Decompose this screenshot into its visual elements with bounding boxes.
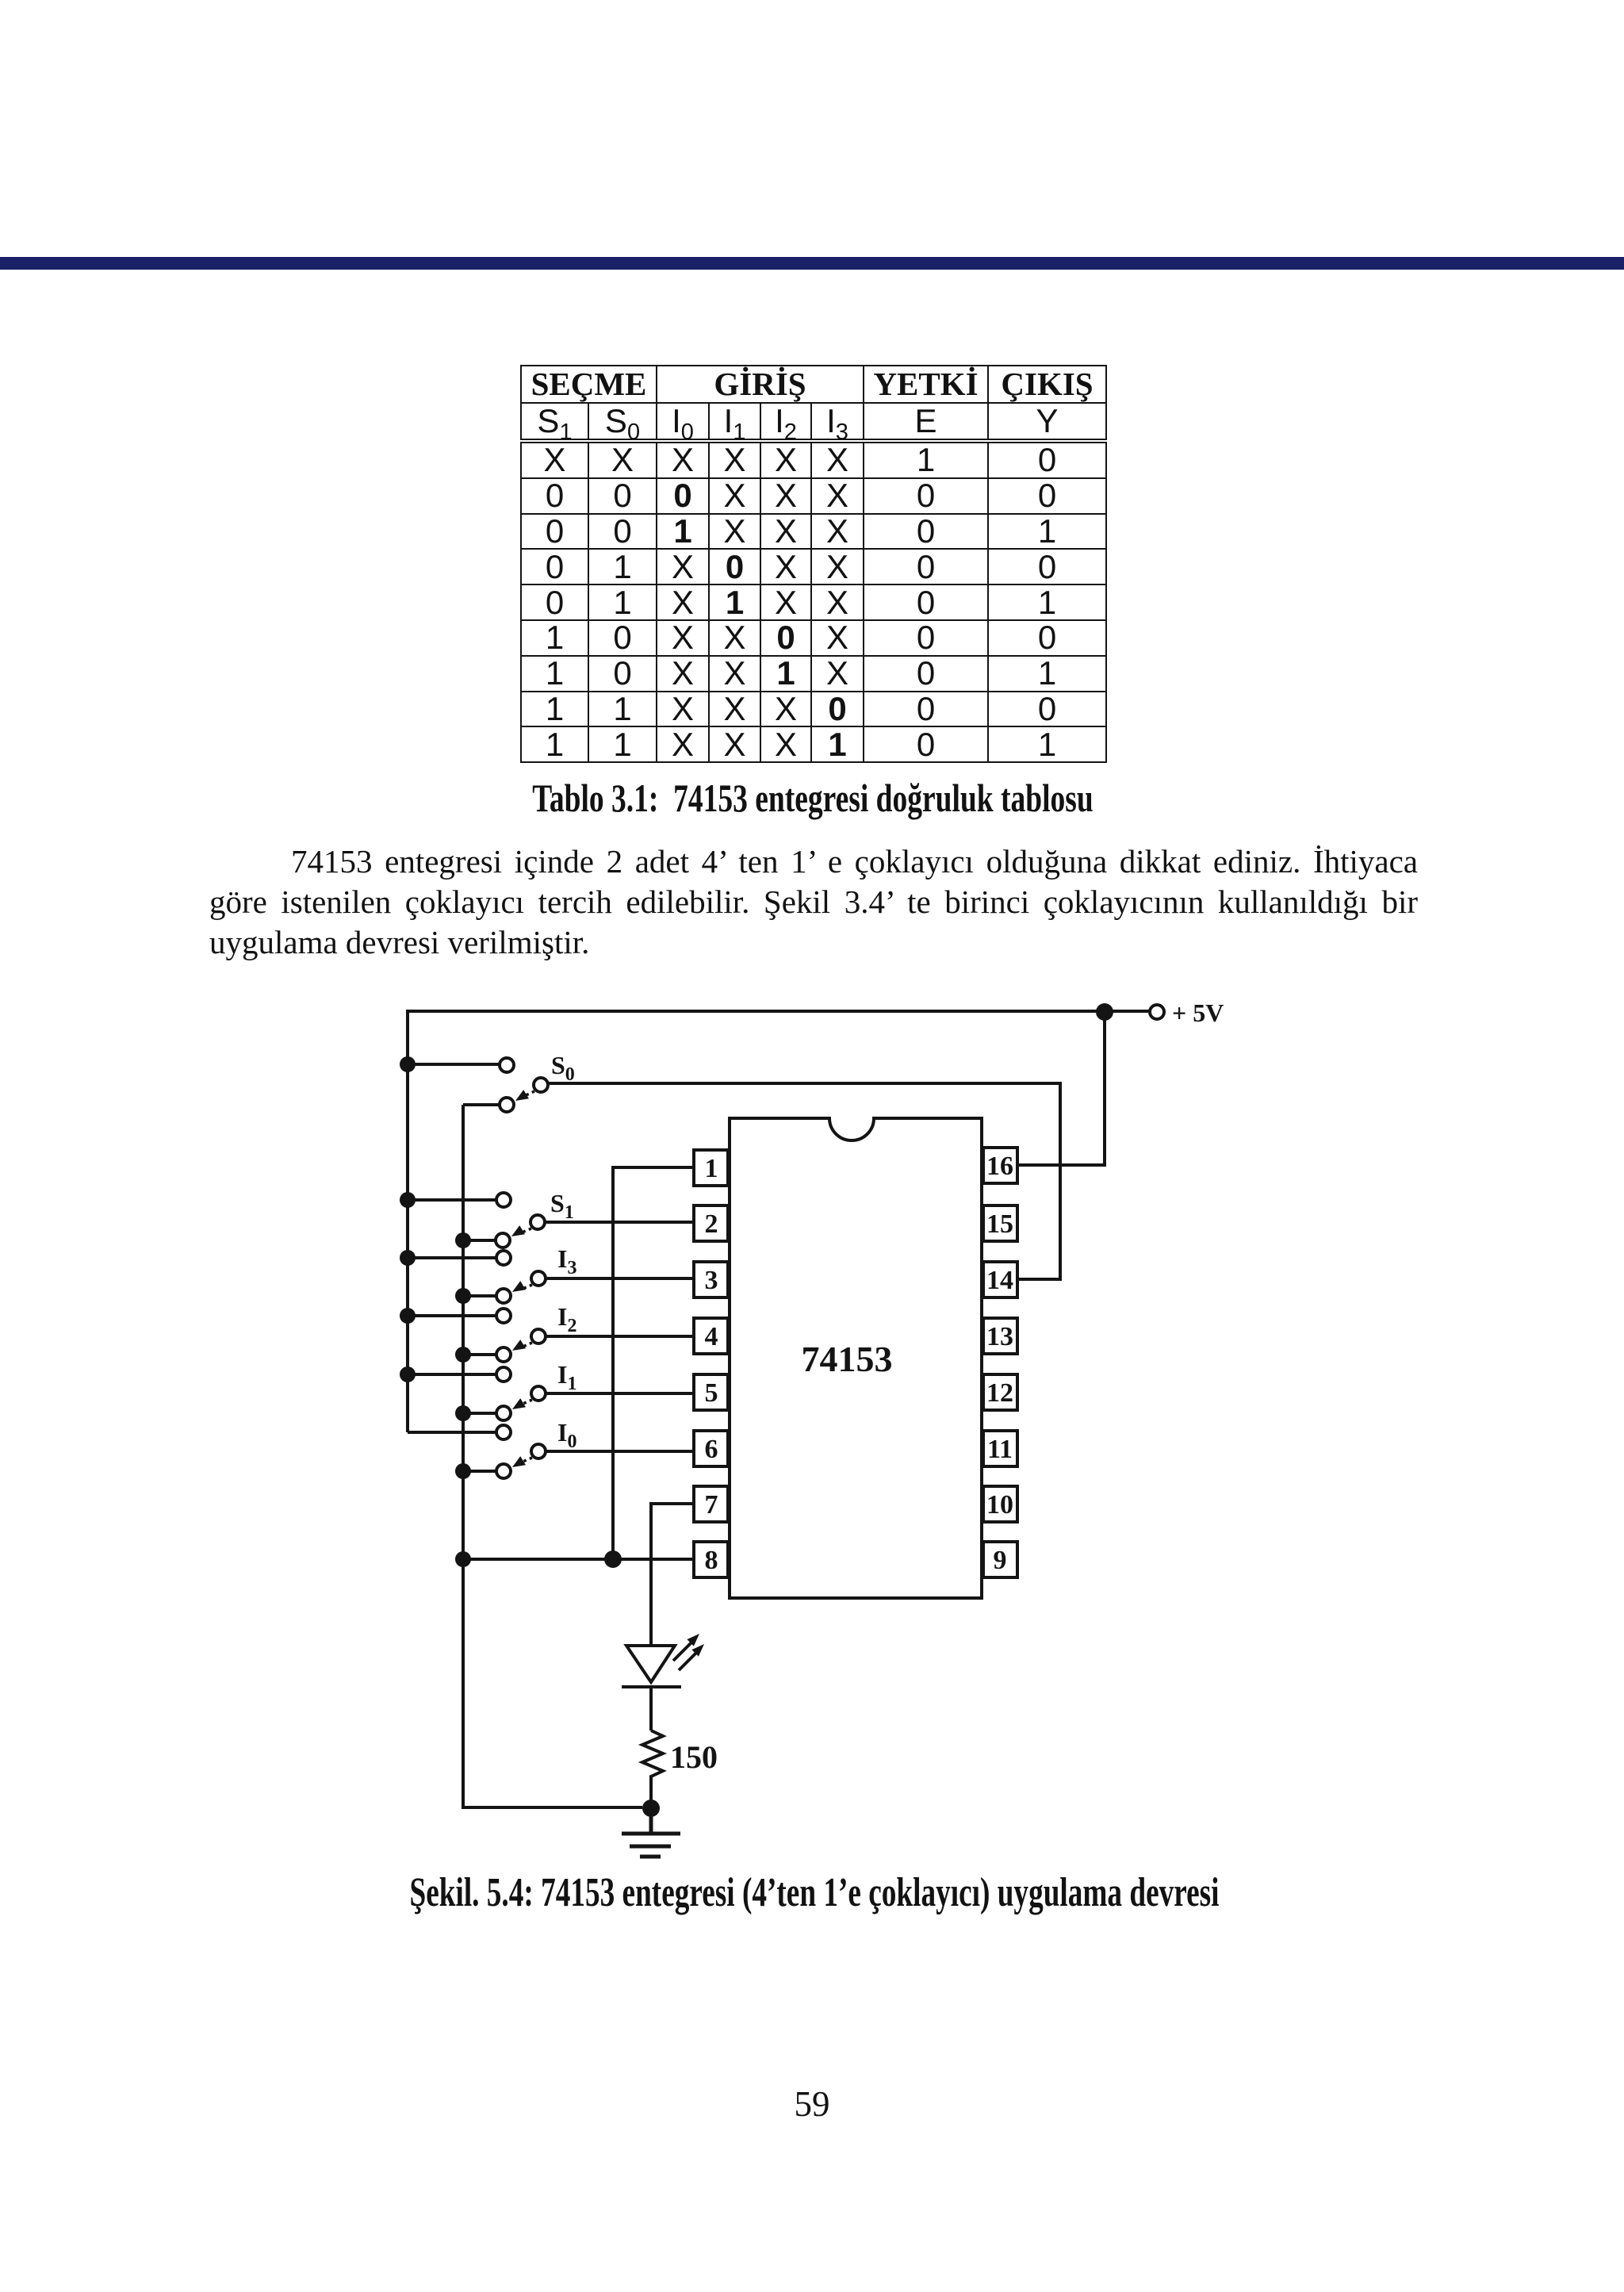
svg-text:74153: 74153 — [802, 1339, 893, 1379]
node +5V terminal circle — [1150, 1005, 1164, 1019]
svg-text:7: 7 — [705, 1490, 718, 1520]
wire S0 lower to inner rail — [463, 1103, 500, 1106]
svg-text:10: 10 — [986, 1490, 1013, 1520]
node I1 top contact circle — [496, 1367, 511, 1382]
node I2 top contact circle — [496, 1309, 511, 1323]
svg-text:I3: I3 — [557, 1244, 576, 1278]
wire pin8 net — [463, 1558, 695, 1561]
node S0 top contact circle — [500, 1058, 514, 1072]
paragraph — [209, 841, 1418, 963]
svg-text:5: 5 — [705, 1378, 718, 1408]
svg-text:+ 5V: + 5V — [1172, 998, 1224, 1027]
svg-text:4: 4 — [705, 1322, 718, 1351]
arrow I0 switch — [521, 1458, 532, 1462]
node I2 pivot circle — [531, 1329, 546, 1343]
junction dot I0 lower — [455, 1463, 471, 1479]
wire left rail — [406, 1010, 409, 1432]
arrow I3 switch — [521, 1285, 532, 1290]
node I3 top contact circle — [496, 1251, 511, 1265]
junction +5V dot — [1096, 1003, 1113, 1021]
junction dot I1 top — [400, 1366, 416, 1382]
switch I3 — [400, 1250, 695, 1304]
wire resistor to ground node — [649, 1778, 653, 1808]
wire I1 to pin5 — [546, 1392, 695, 1395]
node I2 lower contact circle — [496, 1347, 511, 1362]
svg-text:8: 8 — [705, 1546, 718, 1575]
wire +5V top rail — [408, 1010, 1149, 1013]
node I3 lower contact circle — [496, 1289, 511, 1303]
junction dot I2 top — [400, 1308, 416, 1324]
node I0 top contact circle — [496, 1425, 511, 1439]
wire I1 lower to inner rail — [463, 1412, 496, 1415]
LED D1 — [622, 1634, 704, 1687]
resistor R1 150 — [642, 1730, 663, 1778]
arrow S1 switch — [520, 1228, 531, 1233]
svg-text:I0: I0 — [557, 1418, 576, 1452]
wire I0 lower to inner rail — [463, 1470, 496, 1473]
wire I1 top contact — [408, 1373, 496, 1376]
wire I3 lower to inner rail — [463, 1294, 496, 1297]
junction dot S1 lower — [455, 1232, 471, 1248]
svg-text:9: 9 — [994, 1546, 1007, 1575]
wire S1 top contact — [408, 1198, 496, 1202]
svg-text:2: 2 — [705, 1209, 718, 1239]
svg-text:I2: I2 — [557, 1302, 576, 1336]
pin boxes right 16-9 — [983, 1148, 1017, 1577]
junction dot I3 top — [400, 1250, 416, 1266]
node S1 pivot circle — [530, 1215, 545, 1229]
svg-text:6: 6 — [705, 1435, 718, 1464]
wire LED to resistor — [649, 1687, 653, 1730]
junction dot I1 lower — [455, 1405, 471, 1421]
wire I0 to pin6 — [546, 1450, 695, 1453]
ground — [622, 1808, 680, 1857]
wire pin7 to LED — [651, 1504, 695, 1645]
svg-text:12: 12 — [986, 1378, 1013, 1408]
switch I2 — [400, 1308, 695, 1363]
switch S1 — [400, 1192, 695, 1248]
wire S1 to pin2 — [545, 1221, 695, 1224]
arrow S0 switch — [524, 1091, 534, 1096]
node I1 lower contact circle — [496, 1406, 511, 1420]
svg-text:S0: S0 — [551, 1051, 575, 1085]
wire Vcc drop to pin16 — [1019, 1012, 1105, 1165]
svg-text:13: 13 — [986, 1322, 1013, 1351]
header rule bar — [0, 257, 1624, 270]
node S0 pivot circle — [534, 1078, 548, 1092]
table caption — [441, 775, 1185, 821]
pin boxes left 1-8 — [694, 1150, 728, 1577]
svg-text:11: 11 — [987, 1435, 1013, 1464]
wire I2 lower to inner rail — [463, 1353, 496, 1356]
wire I3 to pin3 — [546, 1277, 695, 1280]
node I1 pivot circle — [531, 1386, 546, 1401]
node I0 pivot circle — [531, 1444, 546, 1458]
switch I0 — [408, 1425, 695, 1479]
node S0 lower contact circle — [500, 1098, 514, 1112]
arrow I1 switch — [521, 1400, 532, 1405]
svg-text:150: 150 — [670, 1739, 718, 1775]
svg-text:15: 15 — [986, 1209, 1013, 1239]
junction dot rail-pin8 — [455, 1551, 471, 1567]
IC 74153 body — [730, 1118, 982, 1598]
junction dot S0 top — [400, 1056, 416, 1072]
junction dot pin1-pin8 — [604, 1550, 622, 1568]
svg-text:S1: S1 — [550, 1189, 574, 1223]
svg-text:I1: I1 — [557, 1360, 576, 1394]
svg-text:1: 1 — [705, 1154, 718, 1183]
wire pin1 net — [613, 1167, 695, 1559]
wire I2 to pin4 — [546, 1335, 695, 1338]
wire inner rail — [463, 1105, 642, 1807]
truth table Tablo 3.1 — [520, 365, 1107, 763]
node I0 lower contact circle — [496, 1464, 511, 1478]
node I3 pivot circle — [531, 1271, 546, 1286]
node S1 lower contact circle — [496, 1233, 510, 1248]
junction dot ground node — [642, 1799, 660, 1817]
wire S0 to pin14 — [548, 1083, 1060, 1279]
node S1 top contact circle — [496, 1193, 511, 1207]
wire S1 lower to inner rail — [463, 1239, 496, 1242]
svg-text:14: 14 — [986, 1266, 1013, 1295]
svg-text:16: 16 — [986, 1152, 1013, 1181]
wire S0 top contact — [408, 1063, 500, 1066]
switch I1 — [400, 1366, 695, 1421]
arrow I2 switch — [521, 1343, 532, 1347]
svg-text:3: 3 — [705, 1266, 718, 1295]
junction dot S1 top — [400, 1192, 416, 1208]
junction dot I2 lower — [455, 1347, 471, 1363]
junction dot I3 lower — [455, 1288, 471, 1304]
wire I0 top contact — [408, 1431, 496, 1434]
wire I3 top contact — [408, 1256, 496, 1259]
wire I2 top contact — [408, 1314, 496, 1317]
